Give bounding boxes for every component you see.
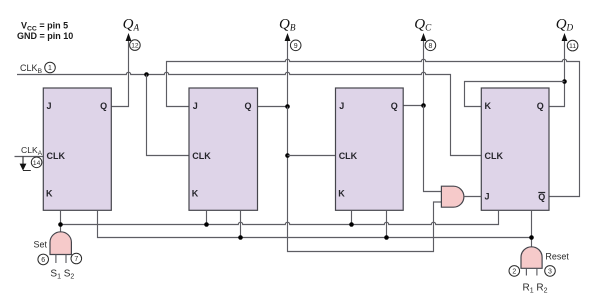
node reset at FF2 (238, 235, 243, 240)
wire FF1 preset pin down to set gate (60, 210, 62, 232)
svg-text:Reset: Reset (545, 251, 569, 261)
svg-text:J: J (193, 101, 198, 111)
op AND gate reset (pointing up) (521, 247, 542, 268)
svg-text:CLK: CLK (47, 151, 66, 161)
node QB to FF3 CLK (285, 153, 290, 158)
wire QB down to FF3 CLK and to AND gate lower input (288, 107, 442, 252)
pin circle 9 (290, 40, 301, 51)
arrowhead QD (562, 33, 568, 41)
op AND gate set (pointing up) (50, 232, 71, 255)
wire QB output: FF2 Q right to node, up to arrow (258, 40, 288, 107)
svg-text:14: 14 (33, 160, 41, 167)
svg-text:CLK: CLK (339, 151, 358, 161)
node QD to K feedback (562, 79, 567, 84)
wire U1 output to FF4 J (464, 196, 481, 198)
svg-text:7: 7 (74, 256, 78, 263)
arrowhead QC (421, 33, 427, 41)
wire QD to K of FF4 (465, 82, 565, 107)
svg-text:6: 6 (41, 257, 45, 264)
svg-text:CLK: CLK (192, 151, 211, 161)
pin circle 14 (31, 157, 42, 168)
wire QC output: FF3 Q right to node, up to arrow (403, 40, 423, 106)
flip-flop FF4 (481, 88, 549, 210)
svg-text:Q: Q (538, 192, 545, 202)
wire reset line (y=237.4) from FF1 clear to reset gate (98, 210, 532, 237)
wire QC down to AND gate upper input (424, 106, 442, 192)
flip-flop FF1 (43, 88, 111, 210)
svg-text:K: K (192, 188, 199, 198)
pin circle 2 (509, 266, 520, 277)
pin circle 3 (545, 266, 556, 277)
wire FF2 clear pin (240, 210, 242, 237)
wire QB branch to FF3 CLK (288, 155, 336, 157)
pin circle 11 (567, 40, 578, 51)
node set at FF3 (349, 222, 354, 227)
svg-text:11: 11 (569, 43, 576, 50)
node set at FF1 (58, 222, 63, 227)
wire QD output: FF4 Q right then up to arrow (548, 40, 564, 107)
node reset at FF4 (529, 235, 534, 240)
node reset at FF3 (384, 235, 389, 240)
arrowhead QB (285, 33, 291, 41)
svg-text:K: K (338, 189, 345, 199)
svg-text:Q: Q (537, 101, 544, 111)
svg-text:Q: Q (100, 101, 107, 111)
node set at FF2 (204, 222, 209, 227)
node CLKB to FF2 clock junction (144, 72, 149, 77)
svg-text:J: J (339, 101, 344, 111)
svg-text:3: 3 (548, 269, 552, 276)
wire set gate inputs (56, 255, 66, 264)
wire FF4 clear pin and reset gate output (531, 210, 533, 246)
wire reset gate inputs (526, 268, 537, 275)
pin circle 6 (38, 254, 49, 265)
wire QA output: FF1 Q right then up to arrow (111, 40, 128, 107)
arrowhead QA (126, 33, 132, 41)
wire CLKB branch to FF2 CLK (147, 75, 190, 156)
pin circle 1 (45, 62, 56, 73)
svg-text:K: K (485, 101, 492, 111)
svg-text:J: J (47, 101, 52, 111)
svg-text:9: 9 (294, 43, 298, 50)
op AND gate U1 (J input of FF4) (441, 186, 464, 207)
wire FF3 preset pin (351, 210, 353, 224)
svg-text:CLK: CLK (485, 151, 504, 161)
svg-text:1: 1 (48, 65, 52, 72)
wire FF3 clear pin (386, 210, 388, 237)
node QC at FF3 Q (421, 103, 426, 108)
svg-text:Set: Set (34, 239, 48, 249)
wire CLKA input (15, 156, 44, 158)
svg-text:GND = pin 10: GND = pin 10 (17, 31, 73, 41)
svg-text:12: 12 (131, 43, 139, 50)
wire set line (y=224.1) with hops, from set gate to FF4 preset (61, 210, 499, 224)
svg-text:Q: Q (244, 101, 251, 111)
node QB at FF2 Q (285, 104, 290, 109)
wire feedback QD-bar to J of FF2 (top long line y=61.5) (167, 59, 580, 196)
flip-flop FF3 (336, 88, 404, 210)
svg-text:J: J (485, 192, 490, 202)
svg-text:K: K (46, 188, 53, 198)
svg-text:2: 2 (512, 269, 516, 276)
pin circle 8 (425, 40, 436, 51)
flip-flop FF2 (189, 88, 258, 210)
wire CLKB net: horizontal bus to FF4 clock, hops at QA/fb/QB/QC verticals, corner down at x=450.8 (17, 72, 481, 155)
svg-text:Q: Q (391, 101, 398, 111)
svg-text:8: 8 (428, 43, 432, 50)
wire FF2 preset pin (206, 210, 208, 224)
falling edge symbol (23, 157, 31, 171)
pin circle 7 (71, 253, 82, 264)
pin circle 12 (130, 40, 141, 51)
